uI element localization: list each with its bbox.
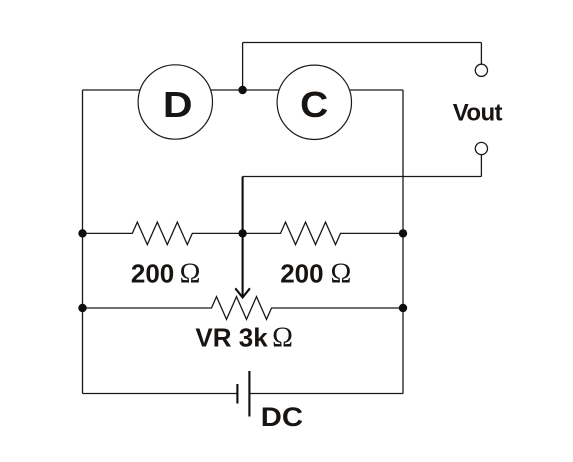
resistor R1 200ohm [83,222,243,245]
wire [242,43,244,91]
node mid bridge [238,229,246,237]
terminal Vout bottom [475,142,487,154]
terminal Vout top [475,64,487,76]
wire [480,43,482,65]
wire [402,90,404,394]
wire wiper lead [242,177,244,234]
svg-text:200Ω: 200Ω [280,258,351,289]
wire [480,155,482,177]
node VR right [399,304,407,312]
wire [243,42,482,44]
resistor R2 200ohm [243,222,403,245]
wire [83,89,404,91]
node junction D-C [238,86,246,94]
svg-text:Vout: Vout [453,100,503,127]
meter C [277,65,351,139]
node VR left [78,304,86,312]
battery DC [237,371,249,417]
node left bridge [78,229,86,237]
svg-text:D: D [163,84,193,125]
wire [249,393,403,395]
meter D [138,65,212,139]
wire [82,90,84,394]
wire [83,393,238,395]
svg-text:VR 3kΩ: VR 3kΩ [195,323,293,354]
svg-text:C: C [300,84,328,125]
node right bridge [399,229,407,237]
potentiometer VR 3k [83,297,404,320]
wire [243,176,482,178]
svg-text:200Ω: 200Ω [131,258,201,289]
wiper arrow [235,233,250,297]
svg-text:DC: DC [261,402,303,432]
